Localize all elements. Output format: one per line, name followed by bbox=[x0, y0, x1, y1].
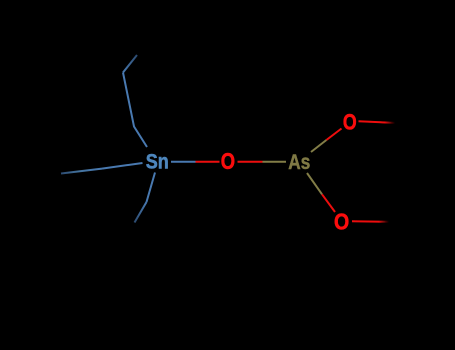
svg-text:Sn: Sn bbox=[146, 149, 169, 174]
svg-text:O: O bbox=[221, 148, 235, 174]
svg-text:O: O bbox=[334, 209, 349, 235]
svg-text:As: As bbox=[288, 149, 310, 174]
svg-text:O: O bbox=[343, 109, 357, 134]
